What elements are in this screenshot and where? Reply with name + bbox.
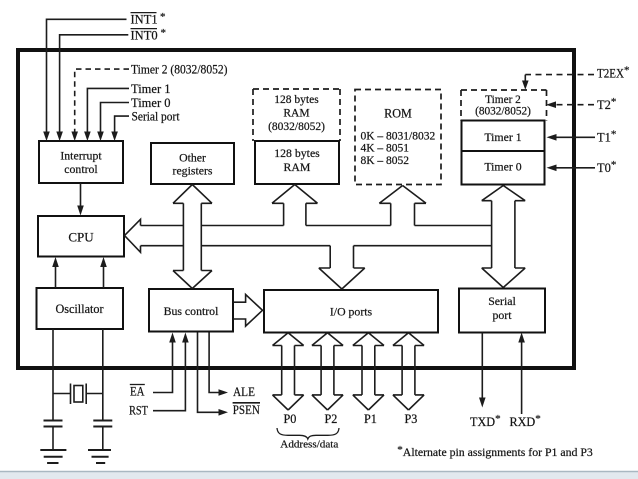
svg-text:Other: Other xyxy=(179,151,206,165)
arrowhead T2EX down into Timer 2 xyxy=(524,75,526,81)
crystal XTAL xyxy=(71,384,87,405)
svg-text:*Alternate pin assignments for: *Alternate pin assignments for P1 and P3 xyxy=(397,444,593,459)
svg-text:PSEN: PSEN xyxy=(233,403,260,417)
svg-text:EA: EA xyxy=(130,385,145,399)
arrowhead into CPU bottom right xyxy=(100,257,107,267)
svg-text:Timer 2: Timer 2 xyxy=(485,94,521,106)
wire INT1 leader xyxy=(47,19,127,132)
wire crystal horizontal xyxy=(53,393,103,395)
block I/O ports xyxy=(264,290,438,333)
svg-text:128 bytes: 128 bytes xyxy=(274,146,320,160)
wire left cap to ground xyxy=(52,427,54,451)
wire right cap to ground xyxy=(102,427,104,451)
svg-text:registers: registers xyxy=(173,164,213,178)
svg-text:control: control xyxy=(64,162,98,176)
wire EA input xyxy=(153,342,173,393)
svg-text:port: port xyxy=(492,308,512,322)
footer bar xyxy=(0,472,638,479)
port arrow P0 xyxy=(273,333,304,410)
block ROM dashed xyxy=(355,90,441,185)
wire crystal left leg xyxy=(52,329,54,420)
brace under P0 and P2 xyxy=(277,428,339,439)
svg-text:INT0: INT0 xyxy=(131,29,158,43)
block 128 bytes RAM solid xyxy=(255,141,339,184)
label INT1 xyxy=(131,11,166,27)
arrowhead TXD xyxy=(479,398,486,408)
port arrow P2 xyxy=(312,333,343,410)
wire Interrupt control to CPU xyxy=(80,183,82,206)
wire ALE output xyxy=(209,333,219,393)
arrowhead Serial port into interrupt control xyxy=(111,132,118,142)
svg-text:8K – 8052: 8K – 8052 xyxy=(361,155,410,167)
wire RST input xyxy=(153,342,185,411)
arrowhead into CPU top xyxy=(77,206,84,216)
wire RXD input xyxy=(521,342,523,414)
block Timer 0 xyxy=(462,151,545,185)
wire T2 dashed xyxy=(554,104,594,106)
block Interrupt control xyxy=(39,141,123,183)
bus arrow up to 128 bytes RAM xyxy=(272,185,318,226)
bus arrow up to ROM xyxy=(379,186,426,226)
svg-text:Timer 1: Timer 1 xyxy=(484,130,521,144)
svg-text:(8032/8052): (8032/8052) xyxy=(475,106,531,118)
svg-text:(8032/8052): (8032/8052) xyxy=(268,121,325,133)
wire T0 xyxy=(555,167,595,169)
arrowhead PSEN xyxy=(219,409,229,416)
svg-text:Timer 0: Timer 0 xyxy=(484,160,521,174)
svg-text:P1: P1 xyxy=(364,412,377,426)
svg-text:RST: RST xyxy=(129,404,148,418)
block 128 bytes RAM (8032/8052) dashed xyxy=(253,89,340,141)
block CPU xyxy=(38,216,124,257)
wire Oscillator to CPU left xyxy=(55,267,57,289)
arrowhead into CPU bottom left xyxy=(52,257,59,267)
arrowhead RST into Bus control xyxy=(182,333,189,343)
arrowhead T0 into Timer 0 xyxy=(547,165,557,172)
arrowhead Timer 0 into interrupt control xyxy=(97,132,104,142)
arrowhead INT0 into interrupt control xyxy=(56,132,63,142)
block Oscillator xyxy=(37,288,124,329)
chip outer boundary xyxy=(18,50,574,368)
svg-text:Bus control: Bus control xyxy=(164,304,219,318)
wire Timer 0 leader xyxy=(101,103,130,133)
wire INT0 leader xyxy=(60,35,129,133)
wire internal bus horizontal channel with arrowhead into CPU xyxy=(125,219,492,252)
svg-text:ALE: ALE xyxy=(233,385,255,399)
capacitor right xyxy=(93,421,112,427)
arrowhead INT1 into interrupt control xyxy=(43,132,50,142)
capacitor left xyxy=(44,421,63,427)
wire Serial port leader xyxy=(115,116,129,132)
svg-text:*: * xyxy=(161,27,167,39)
ground left xyxy=(40,450,66,463)
arrowhead Timer 2 into interrupt control xyxy=(71,132,78,142)
wire Timer 1 leader xyxy=(87,88,129,132)
label INT0 xyxy=(131,27,167,43)
wire TXD output xyxy=(481,333,483,399)
ground right xyxy=(88,450,111,463)
wire Oscillator to CPU right xyxy=(103,267,105,289)
bus arrow Bus control to I/O ports xyxy=(234,295,263,327)
svg-text:Timer 2 (8032/8052): Timer 2 (8032/8052) xyxy=(131,63,228,77)
svg-text:P3: P3 xyxy=(405,412,418,426)
arrowhead EA into Bus control xyxy=(169,333,176,343)
svg-text:Serial: Serial xyxy=(488,294,516,308)
svg-text:Interrupt: Interrupt xyxy=(60,149,102,163)
arrowhead Timer 1 into interrupt control xyxy=(84,132,91,142)
svg-text:RAM: RAM xyxy=(283,108,309,120)
svg-text:0K – 8031/8032: 0K – 8031/8032 xyxy=(361,131,436,143)
svg-text:Oscillator: Oscillator xyxy=(55,302,103,316)
svg-text:P2: P2 xyxy=(325,412,338,426)
svg-text:I/O ports: I/O ports xyxy=(330,305,373,319)
bus double arrow Timer blocks / Serial port xyxy=(482,186,526,288)
block Other registers xyxy=(151,143,234,184)
wire crystal right leg xyxy=(102,329,104,420)
block Timer 2 dashed xyxy=(461,90,547,121)
arrowhead T1 into Timer 1 xyxy=(547,134,557,141)
arrowhead RXD into Serial port xyxy=(518,333,525,343)
svg-text:Timer 0: Timer 0 xyxy=(131,96,170,110)
arrowhead T2 into Timer 2 box xyxy=(546,101,556,108)
arrowhead ALE xyxy=(219,389,229,396)
svg-text:ROM: ROM xyxy=(384,107,412,121)
svg-text:Timer 1: Timer 1 xyxy=(131,82,170,96)
bus arrow up to Other registers / down to Bus control xyxy=(173,185,212,289)
wire PSEN output xyxy=(198,333,220,413)
port arrow P1 xyxy=(353,333,384,410)
svg-text:INT1: INT1 xyxy=(131,13,158,27)
svg-text:RAM: RAM xyxy=(284,160,311,174)
svg-text:*: * xyxy=(160,11,166,23)
block Timer 1 xyxy=(462,121,545,152)
svg-text:P0: P0 xyxy=(284,412,297,426)
bus arrow down to I/O ports xyxy=(319,246,365,289)
svg-text:CPU: CPU xyxy=(68,230,94,245)
label PSEN xyxy=(233,403,260,417)
wire Timer 2 dashed leader xyxy=(75,69,129,131)
svg-text:Serial port: Serial port xyxy=(132,110,180,124)
wire T2EX dashed xyxy=(525,74,594,76)
label EA xyxy=(130,385,145,399)
wire T1 xyxy=(555,136,595,138)
svg-text:Address/data: Address/data xyxy=(280,439,338,451)
block Serial port xyxy=(459,289,545,333)
port arrow P3 xyxy=(393,333,424,410)
block Bus control xyxy=(149,289,233,332)
svg-text:4K – 8051: 4K – 8051 xyxy=(361,143,410,155)
svg-text:128 bytes: 128 bytes xyxy=(274,94,319,106)
